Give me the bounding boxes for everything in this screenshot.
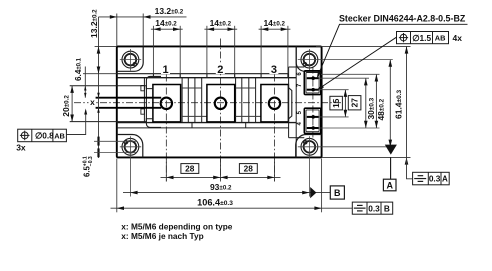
band top outer line [117, 73, 289, 75]
svg-text:27: 27 [350, 98, 360, 108]
terminal screw hole 1 [161, 98, 172, 109]
dim 28 arrows [166, 176, 173, 180]
datum A triangle [385, 145, 397, 155]
svg-text:2: 2 [217, 64, 223, 76]
hole notch top-right [303, 62, 306, 65]
terminal blade upper [96, 97, 162, 99]
pocket stubs block 3 [260, 74, 262, 78]
datum B triangle [310, 187, 316, 198]
tongue housing block1 [146, 76, 161, 127]
rib vertical x=248.8 [248, 78, 250, 123]
symmetry symbol B [357, 204, 363, 206]
dim 14 block 3 ext lines [260, 26, 262, 78]
label terminal 1 [161, 63, 170, 75]
terminal screw hole 2 [215, 98, 226, 109]
dim 93 line [123, 192, 330, 194]
ext line 30 top [321, 73, 380, 75]
band bottom outer line [117, 127, 289, 129]
dim 28 box 1 [181, 164, 199, 174]
datum A box [383, 179, 396, 191]
dim 30 arrows [375, 74, 379, 81]
rib vertical x=255.6 [255, 78, 257, 123]
stecker underline [339, 23, 468, 25]
centerline terminal 3 vertical [274, 75, 276, 182]
centerline terminal 1 vertical [165, 75, 167, 182]
mounting hole top-right [301, 51, 318, 68]
gap2 cross lines [236, 87, 256, 89]
corner pad bottom-left [117, 135, 143, 158]
feature frame position 0.8 AB [18, 129, 67, 142]
terminal blade lower [96, 107, 162, 109]
terminal block 3 [261, 85, 289, 122]
ext lines 15 [319, 89, 349, 91]
ext lines 28 chain [165, 158, 167, 182]
ext lines 27 [319, 77, 369, 79]
recess right wall [295, 46, 297, 157]
svg-text:x: x [90, 97, 95, 107]
slot upper line [70, 86, 153, 89]
recess top line [289, 66, 305, 68]
dim chain vertical left [98, 17, 100, 158]
svg-text:B: B [334, 188, 341, 198]
dim 14 block 1 ext lines [152, 26, 154, 78]
block 1 left tab upper [141, 86, 145, 91]
dim 14 block 3 arrows [261, 27, 268, 31]
svg-text:4x: 4x [453, 33, 463, 43]
ext line module top right [316, 45, 411, 47]
dim 13.2 left arrows [97, 46, 101, 53]
leader frame 0.3A [407, 157, 413, 178]
dim 20 line [71, 86, 73, 122]
dim x text [89, 100, 97, 107]
svg-text:28: 28 [244, 164, 254, 174]
rib vertical x=182.1 [181, 78, 183, 123]
dim 15 box [330, 96, 343, 110]
dim 6.4 line [84, 67, 86, 98]
dim 6.5 ticks [97, 137, 99, 146]
ext line hole dia top [94, 140, 136, 142]
svg-text:x: M5/M6 je nach Typ: x: M5/M6 je nach Typ [121, 231, 203, 241]
dim 15 arrows [344, 90, 348, 97]
pocket stubs block 2 [206, 74, 208, 78]
svg-text:∅0.8: ∅0.8 [35, 131, 54, 141]
ext line band top to left [83, 73, 117, 75]
dim 27 arrows [364, 78, 368, 85]
dim 13.2 top arrows [110, 15, 117, 19]
centerline horizontal main axis [74, 102, 341, 104]
terminal block 1 [153, 85, 181, 122]
svg-text:∅1.5: ∅1.5 [412, 33, 431, 43]
leader frame 1.5 [318, 37, 396, 89]
svg-text:1: 1 [163, 64, 169, 76]
leader frame 0.8 [66, 111, 85, 135]
feature frame position 1.5 AB [397, 32, 449, 44]
ext line module right bottom [321, 159, 323, 213]
svg-text:3: 3 [271, 64, 277, 76]
svg-text:−0.3: −0.3 [88, 156, 94, 166]
centerline connector column [312, 67, 314, 138]
dim 27 line [365, 78, 367, 128]
dim 106.4 line [111, 207, 353, 209]
dim 61.4 arrows [405, 46, 409, 53]
crosshair top-left hole [120, 59, 141, 61]
corner pad bottom-right [296, 135, 322, 158]
dim 6.4 arrows [84, 86, 86, 91]
ext line 13.2 left [116, 14, 118, 47]
connector pin 5 [307, 116, 319, 118]
connector pin 7 [307, 89, 319, 91]
dim 28 chain line [161, 176, 281, 178]
svg-text:A: A [386, 180, 393, 190]
svg-text:0.3: 0.3 [368, 203, 380, 213]
datum B box [330, 186, 344, 199]
crosshair bottom-right hole / extension 48+93 [298, 146, 393, 148]
connector pin 6 [307, 77, 319, 79]
rib vertical x=241.8 [241, 78, 243, 123]
symmetry symbol A [418, 175, 424, 177]
ext line module bottom right [322, 156, 411, 158]
label terminal 2 [216, 63, 225, 75]
dim 30 line [375, 74, 377, 128]
connector upper body [304, 71, 321, 95]
block 1 left tab lower [141, 109, 145, 114]
recess bottom line [289, 137, 305, 139]
dim 14 block 2 line [204, 28, 237, 30]
dim 14 block 3 line [259, 28, 291, 30]
svg-text:28: 28 [185, 164, 195, 174]
dim 48 line [389, 60, 391, 147]
dim 15 line [344, 90, 346, 117]
dim 106.4 arrows [117, 206, 124, 210]
svg-text:B: B [384, 203, 390, 213]
connector pin 4 [307, 127, 319, 129]
corner pad top-right [296, 46, 321, 71]
band bottom inner line [117, 122, 296, 124]
svg-text:x: M5/M6 depending on type: x: M5/M6 depending on type [121, 221, 232, 231]
leader stecker [318, 24, 340, 76]
flatness frame 0.3 A [413, 172, 450, 185]
hole notch bottom-right [304, 141, 307, 144]
dim 14 block 2 ext lines [206, 26, 208, 78]
recess left wall [288, 67, 290, 138]
band top inner line [117, 77, 296, 79]
dim 61.4 line [406, 46, 408, 157]
datum A stem [390, 157, 392, 179]
rib vertical x=201.7 [201, 78, 203, 123]
hole notch top-left [133, 62, 136, 65]
crosshair top-right hole / extension 48 top [298, 59, 393, 61]
ext line 13.2 right [142, 14, 144, 47]
flatness frame 0.3 B [352, 202, 392, 214]
dim 48 arrows [389, 60, 393, 67]
dim 93 arrows [130, 191, 137, 195]
connector lower body [304, 108, 321, 133]
pocket stubs block 1 [152, 74, 154, 78]
svg-text:AB: AB [435, 34, 446, 43]
svg-text:Stecker DIN46244-A2.8-0.5-BZ: Stecker DIN46244-A2.8-0.5-BZ [339, 14, 466, 24]
rib vertical x=235.6 [235, 78, 237, 123]
dim 6.5 text [83, 156, 95, 177]
ext line hole dia bottom [94, 152, 136, 154]
dim x arrows [97, 93, 100, 98]
dim 20 arrows [70, 86, 74, 93]
rib vertical x=194.9 [194, 78, 196, 123]
dim 13.2 top line [99, 16, 187, 18]
position symbol [21, 132, 28, 139]
dim 14 block 2 arrows [207, 27, 214, 31]
terminal block 2 [207, 85, 235, 122]
ext line module left bottom [116, 159, 118, 213]
dim 28 box 2 [239, 164, 257, 174]
ext line module top to left [95, 45, 117, 47]
mounting hole bottom-right [301, 138, 318, 155]
dim 14 block 1 line [151, 28, 183, 30]
terminal screw hole 3 [269, 98, 280, 109]
svg-text:0.3: 0.3 [429, 174, 441, 184]
crosshair bottom-left hole / extension 93 left [120, 146, 141, 148]
mounting hole bottom-left [122, 138, 139, 155]
svg-text:15: 15 [331, 98, 341, 108]
module outline [117, 46, 322, 157]
mounting hole top-left [122, 51, 139, 68]
svg-text:3x: 3x [16, 143, 26, 153]
dim 14 block 1 arrows [153, 27, 160, 31]
corner pad top-left [117, 46, 143, 71]
centerline terminal 2 vertical [219, 39, 221, 182]
hole notch bottom-left [124, 141, 127, 144]
position symbol 1.5 [400, 34, 407, 41]
dim 27 box [348, 96, 361, 110]
block 3 chamfered tab [288, 88, 291, 120]
gap1 cross lines [182, 87, 202, 89]
svg-text:A: A [442, 175, 448, 184]
rib vertical x=144.4 [143, 78, 145, 123]
svg-text:AB: AB [54, 131, 65, 140]
rib vertical x=188.3 [187, 78, 189, 123]
slot lower line [70, 119, 153, 122]
label terminal 3 [269, 63, 278, 75]
svg-text:6.5: 6.5 [83, 165, 92, 177]
